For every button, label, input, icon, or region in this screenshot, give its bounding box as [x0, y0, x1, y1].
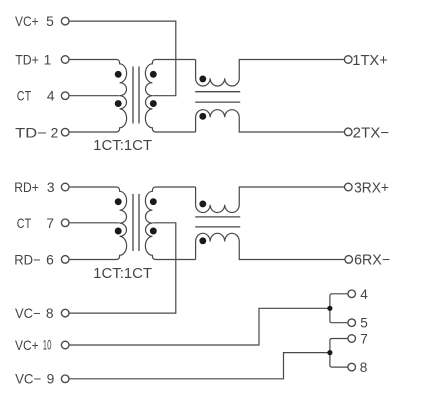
choke L2 core: [195, 216, 240, 218]
svg-text:3: 3: [47, 180, 55, 195]
transformer T2 secondary winding: [145, 187, 195, 260]
T1 secondary polarity dot lower: [150, 100, 157, 107]
pin VC-9 terminal circle: [61, 375, 69, 383]
svg-text:TD−: TD−: [15, 125, 47, 140]
transformer T1 core: [132, 67, 134, 124]
svg-text:TD+: TD+: [15, 53, 39, 68]
svg-text:1CT:1CT: 1CT:1CT: [93, 266, 152, 282]
svg-text:9: 9: [47, 371, 55, 386]
pin 1TX+ terminal circle: [344, 56, 352, 64]
choke L1 top winding: [196, 60, 345, 87]
pin RD-6 terminal circle: [61, 256, 69, 264]
svg-text:RD+: RD+: [14, 180, 39, 195]
bracket pins 7-8: [330, 339, 348, 368]
T1 secondary polarity dot upper: [150, 71, 157, 78]
pin TD+1 terminal circle: [61, 56, 69, 64]
transformer T1 primary winding: [69, 60, 127, 133]
svg-text:1: 1: [44, 53, 52, 68]
pin 8 terminal circle: [348, 363, 356, 371]
svg-text:VC+: VC+: [15, 14, 39, 29]
pin 3RX+ terminal circle: [345, 183, 353, 191]
choke L2 polarity dot top: [199, 200, 206, 207]
svg-text:1CT:1CT: 1CT:1CT: [93, 138, 152, 154]
T2 primary polarity dot lower: [115, 228, 122, 235]
svg-text:1TX+: 1TX+: [352, 53, 388, 69]
pin 7 terminal circle: [348, 335, 356, 343]
T1 primary polarity dot upper: [115, 71, 122, 78]
svg-text:8: 8: [46, 306, 54, 321]
choke L2 bottom winding: [196, 233, 345, 259]
svg-text:CT: CT: [17, 216, 32, 231]
pin CT7 terminal circle: [61, 219, 69, 227]
choke L1 polarity dot bottom: [199, 113, 206, 120]
svg-text:10: 10: [43, 338, 52, 353]
T1 primary polarity dot lower: [115, 100, 122, 107]
choke L1 polarity dot top: [199, 75, 206, 82]
T2 primary polarity dot upper: [115, 198, 122, 205]
svg-text:CT: CT: [17, 89, 32, 104]
pin 2TX- terminal circle: [344, 128, 352, 136]
svg-text:7: 7: [46, 216, 54, 231]
pin VC+10 terminal circle: [61, 341, 69, 349]
svg-text:2TX−: 2TX−: [353, 125, 390, 141]
choke L2 top winding: [196, 187, 345, 213]
svg-text:5: 5: [46, 14, 54, 29]
svg-text:RD−: RD−: [14, 252, 40, 267]
svg-text:VC−: VC−: [15, 371, 41, 386]
junction node 7-8: [327, 350, 332, 355]
choke L1 bottom winding: [196, 110, 345, 132]
pin VC+5 terminal circle: [61, 17, 69, 25]
svg-text:VC+: VC+: [15, 338, 39, 353]
wire VC+5 to T1 secondary center tap: [69, 21, 176, 96]
pin CT4 terminal circle: [61, 92, 69, 100]
pin TD-2 terminal circle: [61, 128, 69, 136]
svg-text:3RX+: 3RX+: [354, 180, 389, 196]
pin 5 terminal circle: [348, 319, 356, 327]
pin 6RX- terminal circle: [345, 256, 353, 264]
wire VC-8 to T2 secondary center tap: [69, 223, 176, 313]
transformer T2 primary winding: [69, 187, 127, 260]
wire VC-9 to node 7-8: [69, 353, 330, 379]
svg-text:VC−: VC−: [15, 306, 41, 321]
pin RD+3 terminal circle: [61, 183, 69, 191]
wire VC+10 to node 4-5: [69, 308, 330, 345]
svg-text:4: 4: [47, 89, 55, 104]
svg-text:2: 2: [51, 125, 59, 140]
svg-text:4: 4: [360, 287, 368, 302]
svg-text:6RX−: 6RX−: [354, 253, 390, 269]
wire CT7 to T2 primary center tap: [69, 222, 120, 224]
choke L1 core: [195, 91, 240, 93]
junction node 4-5: [327, 306, 332, 311]
T2 secondary polarity dot upper: [150, 198, 157, 205]
pin VC-8 terminal circle: [61, 309, 69, 317]
svg-text:8: 8: [360, 360, 368, 375]
svg-text:7: 7: [360, 332, 368, 347]
wire CT4 to T1 primary center tap: [69, 95, 120, 97]
transformer T1 secondary winding: [145, 60, 195, 133]
svg-text:5: 5: [360, 316, 368, 331]
choke L2 polarity dot bottom: [199, 237, 206, 244]
pin 4 terminal circle: [348, 290, 356, 298]
svg-text:6: 6: [46, 252, 54, 267]
T2 secondary polarity dot lower: [150, 228, 157, 235]
transformer T2 core: [132, 194, 134, 251]
bracket pins 4-5: [330, 294, 348, 323]
